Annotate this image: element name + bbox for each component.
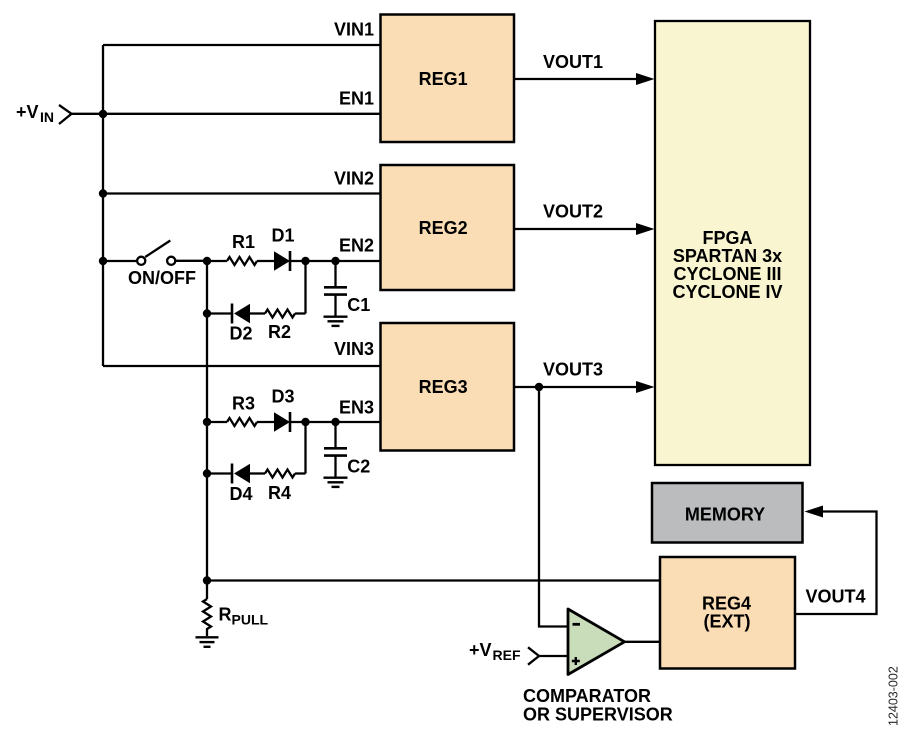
node junction bus EN1 <box>99 110 107 118</box>
resistor R3 <box>227 394 257 427</box>
svg-text:+V: +V <box>16 102 39 122</box>
capacitor C2 <box>324 422 370 477</box>
svg-text:REG3: REG3 <box>419 377 468 397</box>
svg-text:D4: D4 <box>229 484 252 504</box>
svg-text:R1: R1 <box>232 232 255 252</box>
MEMORY block <box>652 483 803 543</box>
wire +VREF to comparator plus input <box>539 655 568 657</box>
regulator REG3 <box>381 323 515 451</box>
wire EN3 row segment <box>207 421 227 423</box>
diode D3 <box>271 387 294 433</box>
regulator REG4 (EXT) <box>660 557 795 669</box>
ground for C2 <box>324 478 348 487</box>
wire VOUT3 to comparator minus input <box>539 387 568 627</box>
regulator REG2 <box>381 165 515 290</box>
wire node to D2 row vertical <box>304 261 306 314</box>
wire input bus vertical <box>102 45 104 366</box>
node EN3 / C2 <box>331 418 339 426</box>
wire D4 to R4 <box>250 472 265 474</box>
wire D1 to EN2 <box>290 260 381 262</box>
wire bus to switch <box>103 260 137 262</box>
node D4 anode junction <box>203 469 211 477</box>
wire VIN2 <box>103 192 381 194</box>
svg-text:EN2: EN2 <box>339 236 374 256</box>
svg-text:R2: R2 <box>268 322 291 342</box>
svg-text:REF: REF <box>493 647 521 663</box>
node D3 cathode junction <box>301 418 309 426</box>
svg-text:VOUT4: VOUT4 <box>806 587 866 607</box>
ground for C1 <box>324 317 348 326</box>
arrowhead VOUT2 <box>636 223 655 235</box>
node D2 anode junction <box>203 309 211 317</box>
wire VOUT3 <box>514 386 637 388</box>
diode D4 <box>229 464 252 505</box>
svg-text:VIN2: VIN2 <box>334 169 374 189</box>
svg-text:CYCLONE III: CYCLONE III <box>673 264 781 284</box>
node VOUT3 branch <box>535 383 543 391</box>
svg-text:VOUT3: VOUT3 <box>543 359 603 379</box>
svg-text:VIN1: VIN1 <box>334 20 374 40</box>
svg-text:CYCLONE IV: CYCLONE IV <box>672 282 782 302</box>
switch ON/OFF <box>128 241 196 289</box>
arrowhead VOUT1 <box>636 73 655 85</box>
svg-text:C2: C2 <box>347 456 370 476</box>
node junction bus VIN2 <box>99 189 107 197</box>
wire D4 row segment <box>207 472 232 474</box>
svg-text:REG2: REG2 <box>419 218 468 238</box>
node EN3 row left junction <box>203 418 211 426</box>
FPGA block U1 <box>655 21 810 465</box>
wire VOUT4 to MEMORY <box>795 512 877 615</box>
svg-text:VOUT1: VOUT1 <box>543 52 603 72</box>
wire R3 to D3 <box>257 421 274 423</box>
wire +VIN to EN1 <box>72 113 381 115</box>
svg-text:VIN3: VIN3 <box>334 339 374 359</box>
wire EN2 row segment <box>207 260 227 262</box>
svg-text:VOUT2: VOUT2 <box>543 202 603 222</box>
wire D2 to R2 <box>250 312 265 314</box>
wire VIN1 <box>103 44 381 46</box>
svg-text:D3: D3 <box>271 387 294 407</box>
wire switch to node A <box>175 260 207 262</box>
svg-text:MEMORY: MEMORY <box>685 504 765 524</box>
node D1 cathode junction <box>301 257 309 265</box>
svg-text:R: R <box>219 605 232 625</box>
svg-text:ON/OFF: ON/OFF <box>128 268 196 288</box>
arrowhead VOUT3 <box>636 381 655 393</box>
svg-text:(EXT): (EXT) <box>704 612 751 632</box>
svg-text:EN3: EN3 <box>339 398 374 418</box>
node EN2 / C1 <box>331 257 339 265</box>
wire VOUT2 <box>514 228 637 230</box>
node A switch output <box>203 257 211 265</box>
svg-text:D1: D1 <box>271 226 294 246</box>
svg-text:SPARTAN 3x: SPARTAN 3x <box>673 246 782 266</box>
arrowhead into MEMORY <box>805 506 824 518</box>
capacitor C1 <box>324 261 370 316</box>
wire R2 to vertical <box>295 312 306 314</box>
svg-text:D2: D2 <box>229 324 252 344</box>
wire VIN3 <box>103 365 381 367</box>
resistor R4 <box>265 470 295 504</box>
label COMPARATOR OR SUPERVISOR <box>523 686 673 724</box>
svg-text:C1: C1 <box>347 295 370 315</box>
regulator REG1 <box>381 15 515 143</box>
diode D2 <box>229 304 252 344</box>
wire R4 to vertical <box>295 472 306 474</box>
svg-text:12403-002: 12403-002 <box>887 666 901 726</box>
wire comparator output to REG4 <box>625 641 661 643</box>
wire D2 row segment <box>207 312 232 314</box>
svg-text:R3: R3 <box>232 394 255 414</box>
svg-text:OR SUPERVISOR: OR SUPERVISOR <box>523 704 673 724</box>
ground for RPULL <box>196 637 219 647</box>
input connector +VREF <box>469 640 539 665</box>
svg-text:COMPARATOR: COMPARATOR <box>523 686 651 706</box>
wire R1 to D1 <box>257 260 274 262</box>
input connector +VIN <box>16 102 72 125</box>
svg-text:REG4: REG4 <box>702 594 751 614</box>
wire RPULL node to REG4 <box>207 579 660 581</box>
svg-text:FPGA: FPGA <box>702 228 752 248</box>
resistor RPULL <box>203 599 269 636</box>
svg-text:EN1: EN1 <box>339 89 374 109</box>
diode D1 <box>271 226 294 272</box>
wire D3 to EN3 <box>290 421 381 423</box>
resistor R2 <box>265 310 295 343</box>
node junction bus switch <box>99 257 107 265</box>
wire node A down to RPULL <box>206 261 208 599</box>
comparator U2 <box>568 609 625 675</box>
wire node to D4 row vertical <box>304 422 306 474</box>
svg-text:REG1: REG1 <box>419 69 468 89</box>
node RPULL junction <box>203 576 211 584</box>
svg-text:PULL: PULL <box>232 611 269 627</box>
svg-text:IN: IN <box>40 109 54 125</box>
svg-text:R4: R4 <box>268 483 291 503</box>
wire VOUT1 <box>514 78 637 80</box>
svg-text:+V: +V <box>469 640 492 660</box>
resistor R1 <box>227 232 257 265</box>
